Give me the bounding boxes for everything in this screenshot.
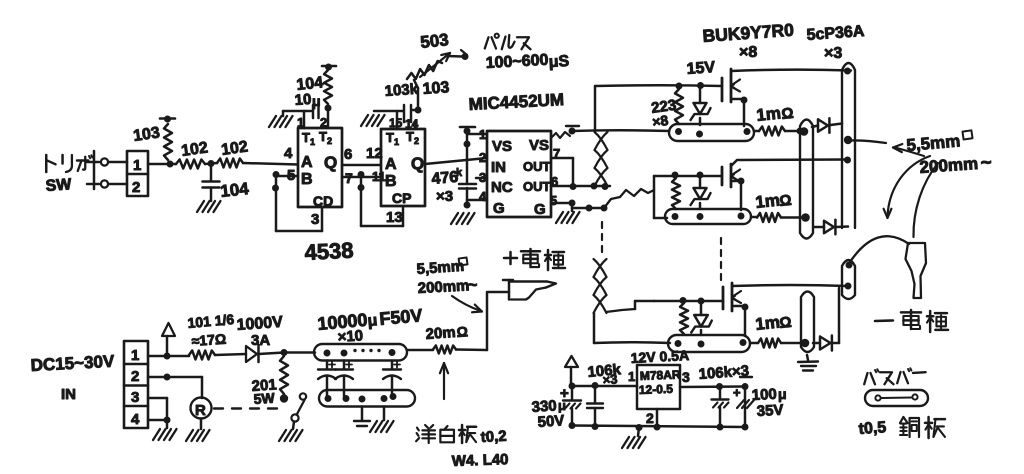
- svg-text:3: 3: [682, 369, 690, 385]
- svg-text:1: 1: [479, 127, 486, 142]
- svg-text:1: 1: [310, 137, 315, 147]
- svg-text:102: 102: [220, 138, 249, 159]
- svg-text:t0,5: t0,5: [858, 419, 887, 438]
- svg-text:103: 103: [132, 124, 161, 145]
- svg-text:B: B: [301, 171, 313, 188]
- svg-text:200mm: 200mm: [417, 277, 470, 297]
- svg-text:A: A: [301, 154, 313, 171]
- svg-text:μ: μ: [367, 312, 378, 330]
- svg-text:μ: μ: [778, 386, 787, 402]
- svg-text:3: 3: [131, 389, 139, 406]
- svg-text:1m: 1m: [755, 104, 781, 125]
- svg-text:Ω: Ω: [779, 192, 793, 210]
- svg-text:B: B: [385, 173, 397, 190]
- svg-text:106k×3: 106k×3: [698, 363, 750, 383]
- svg-text:13: 13: [386, 209, 403, 226]
- svg-text:2: 2: [131, 368, 139, 385]
- svg-text:NC: NC: [491, 179, 513, 196]
- svg-text:1000V: 1000V: [236, 314, 284, 334]
- svg-text:T: T: [386, 130, 394, 145]
- svg-text:t0,2: t0,2: [480, 428, 507, 446]
- svg-text:BUK9Y7R0: BUK9Y7R0: [702, 20, 795, 46]
- svg-text:1: 1: [133, 157, 141, 174]
- svg-text:5,5mm: 5,5mm: [906, 131, 961, 155]
- svg-text:IN: IN: [61, 386, 76, 403]
- svg-text:5,5mm: 5,5mm: [416, 258, 465, 278]
- svg-text:Ω: Ω: [456, 323, 468, 340]
- svg-text:103k: 103k: [384, 81, 419, 100]
- svg-text:Q: Q: [324, 153, 337, 172]
- svg-text:2: 2: [646, 410, 654, 426]
- svg-text:M78AR: M78AR: [640, 368, 681, 383]
- svg-text:μS: μS: [548, 53, 570, 71]
- svg-text:F50V: F50V: [379, 305, 424, 329]
- svg-text:W4. L40: W4. L40: [452, 451, 509, 470]
- svg-text:15V: 15V: [686, 59, 716, 78]
- svg-text:T: T: [406, 129, 414, 144]
- svg-text:104: 104: [219, 179, 250, 201]
- svg-text:k: k: [456, 167, 463, 179]
- svg-text:35V: 35V: [756, 402, 784, 420]
- svg-text:1: 1: [131, 347, 139, 364]
- svg-text:~: ~: [468, 277, 477, 294]
- svg-text:3: 3: [311, 211, 319, 228]
- svg-text:6: 6: [344, 146, 352, 163]
- svg-text:+: +: [733, 385, 741, 400]
- svg-text:VS: VS: [529, 137, 549, 154]
- svg-text:OUT: OUT: [523, 159, 551, 174]
- svg-text:Ω: Ω: [779, 314, 793, 332]
- svg-text:2: 2: [479, 150, 486, 165]
- svg-text:R: R: [195, 402, 206, 419]
- svg-text:G: G: [493, 200, 505, 217]
- svg-text:×3: ×3: [824, 45, 842, 62]
- svg-text:~: ~: [980, 152, 993, 174]
- svg-text:4: 4: [479, 189, 487, 204]
- svg-text:1m: 1m: [754, 191, 780, 212]
- svg-text:101 1/6: 101 1/6: [187, 311, 235, 331]
- svg-text:SW: SW: [45, 176, 73, 195]
- svg-text:T: T: [302, 130, 310, 145]
- svg-text:1m: 1m: [754, 313, 780, 334]
- svg-text:IN: IN: [491, 159, 506, 176]
- svg-text:3: 3: [479, 170, 486, 185]
- svg-text:102: 102: [180, 139, 209, 160]
- svg-text:476: 476: [431, 169, 459, 188]
- svg-text:103: 103: [422, 79, 450, 98]
- svg-text:3A: 3A: [251, 332, 270, 349]
- svg-text:DC15~30V: DC15~30V: [30, 352, 115, 375]
- svg-text:A: A: [385, 156, 397, 173]
- svg-text:Q: Q: [411, 154, 424, 173]
- svg-text:×8: ×8: [739, 44, 757, 61]
- svg-text:20m: 20m: [425, 324, 456, 343]
- svg-text:OUT: OUT: [523, 179, 551, 194]
- svg-text:50V: 50V: [537, 412, 565, 431]
- svg-text:10: 10: [294, 91, 312, 109]
- svg-text:4: 4: [284, 145, 293, 162]
- svg-text:2: 2: [132, 179, 140, 196]
- svg-text:4: 4: [131, 411, 140, 428]
- svg-text:1: 1: [394, 137, 399, 147]
- svg-text:11: 11: [372, 169, 386, 184]
- svg-text:MIC4452UM: MIC4452UM: [468, 90, 564, 114]
- svg-text:G: G: [534, 201, 546, 218]
- svg-text:12-0.5: 12-0.5: [639, 382, 674, 397]
- svg-text:≈17Ω: ≈17Ω: [191, 331, 227, 349]
- svg-text:2: 2: [414, 136, 419, 146]
- svg-text:12V 0.5A: 12V 0.5A: [630, 347, 689, 366]
- svg-text:1: 1: [628, 369, 635, 384]
- svg-text:×8: ×8: [651, 112, 669, 130]
- svg-text:5cP36A: 5cP36A: [806, 23, 865, 44]
- svg-text:×3: ×3: [436, 188, 453, 205]
- svg-text:T: T: [319, 129, 327, 144]
- svg-text:4538: 4538: [304, 237, 354, 265]
- svg-text:5W: 5W: [253, 390, 276, 407]
- svg-text:CP: CP: [392, 190, 411, 206]
- svg-text:Ω: Ω: [781, 105, 795, 123]
- svg-text:2: 2: [327, 136, 332, 146]
- svg-text:VS: VS: [492, 138, 512, 155]
- svg-text:5: 5: [550, 193, 557, 208]
- svg-text:503: 503: [419, 30, 449, 52]
- svg-text:100~600: 100~600: [485, 52, 549, 72]
